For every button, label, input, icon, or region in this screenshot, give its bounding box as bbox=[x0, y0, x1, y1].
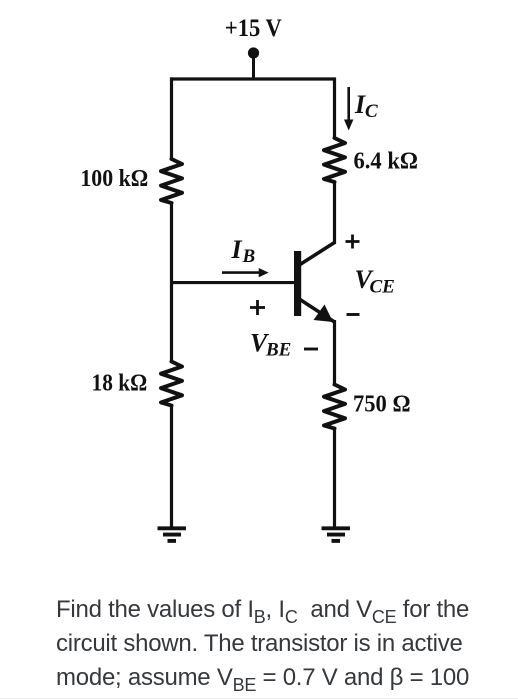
label plus VCE bbox=[346, 235, 360, 249]
resistor R4 750 zigzag bbox=[324, 385, 345, 429]
transistor Q1 emitter diagonal with arrowhead bbox=[300, 300, 335, 323]
ground left bbox=[158, 528, 187, 541]
wire emitter vertical bbox=[333, 320, 336, 386]
svg-text:18 kΩ: 18 kΩ bbox=[92, 369, 148, 395]
resistor R3 6.4k zigzag bbox=[324, 138, 345, 182]
label minus VBE bbox=[304, 348, 318, 351]
resistor R1 100k zigzag bbox=[161, 159, 182, 203]
svg-text:CE: CE bbox=[370, 277, 395, 298]
arrow IB bbox=[222, 268, 269, 277]
wire right lower bbox=[333, 428, 336, 529]
transistor Q1 base bar bbox=[294, 251, 301, 316]
ground right bbox=[322, 528, 351, 541]
label IB bbox=[231, 235, 256, 267]
caption paragraph bbox=[56, 593, 518, 695]
wire left upper bbox=[170, 77, 173, 160]
arrow IC bbox=[344, 87, 353, 131]
svg-text:B: B bbox=[242, 246, 256, 267]
wire left lower bbox=[170, 405, 173, 529]
wire left middle bbox=[170, 202, 173, 363]
label IC bbox=[354, 90, 378, 122]
label minus VCE bbox=[347, 313, 360, 316]
label VBE bbox=[250, 329, 291, 361]
svg-text:750 Ω: 750 Ω bbox=[353, 391, 411, 418]
wire supply stub bbox=[252, 55, 255, 79]
wire right upper bbox=[333, 77, 336, 139]
svg-text:I: I bbox=[231, 235, 243, 264]
svg-text:C: C bbox=[365, 101, 378, 122]
label VCE bbox=[355, 265, 395, 298]
wire top horizontal bbox=[171, 77, 335, 80]
bottom divider line bbox=[0, 698, 518, 699]
svg-text:6.4 kΩ: 6.4 kΩ bbox=[354, 148, 418, 175]
svg-text:100 kΩ: 100 kΩ bbox=[80, 165, 148, 191]
wire collector vertical bbox=[333, 181, 336, 244]
node +15V supply dot bbox=[248, 47, 259, 58]
label plus VBE bbox=[250, 300, 265, 315]
svg-text:+15 V: +15 V bbox=[225, 15, 282, 42]
svg-text:BE: BE bbox=[265, 340, 291, 361]
transistor Q1 collector diagonal bbox=[300, 243, 335, 265]
resistor R2 18k zigzag bbox=[161, 362, 182, 406]
wire base horizontal bbox=[170, 281, 295, 284]
